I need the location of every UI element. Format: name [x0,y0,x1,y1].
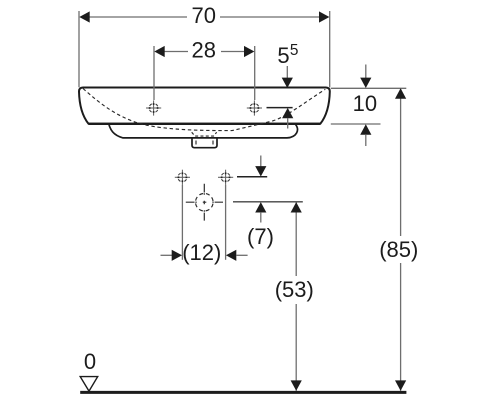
dim 28: arrow right [244,46,254,57]
dim 10: up arrow [360,124,371,134]
dim 28: arrow left [154,46,164,57]
dim 7: up arrow [255,202,266,212]
dim 70: line [88,16,320,18]
svg-text:5: 5 [277,43,289,68]
dim 70: extension line right [329,11,331,87]
dim 70: extension line left [78,11,80,87]
dim 5.5: upper arrow stem [286,66,288,79]
dim 12: extension line right [225,185,227,260]
dim 10: lower arrow stem [365,134,367,146]
svg-text:10: 10 [353,91,377,116]
svg-text:5: 5 [290,42,299,59]
basin rim bottom edge [89,123,321,125]
dim 53: vertical line upper part [295,202,297,276]
mounting holes reference line [237,176,267,178]
dim 12: right stub line [236,254,248,256]
dim 53: down arrow [291,380,302,390]
dim 12: extension line left [181,185,183,260]
sump dashed outline [192,132,217,136]
svg-text:0: 0 [84,349,96,374]
basin interior dashed curve [83,89,325,131]
dim 53: up arrow [291,202,302,212]
dim 5.5: lower arrow stem [287,118,289,129]
dim 70: arrow right [319,11,329,22]
dim 28: line [163,51,246,53]
tap hole crosshair right [247,100,262,115]
dim 5.5: down arrow [282,78,293,88]
svg-text:(53): (53) [275,277,314,302]
dim 5.5: reference line at tap level [267,107,293,109]
basin apron [109,124,297,137]
dim 70: arrow left [79,11,89,22]
dim 10: upper extension line [331,87,407,89]
dim 28: extension line left [153,46,155,100]
dim 85: vertical line upper part [400,89,402,236]
svg-text:(12): (12) [182,240,221,265]
mounting hole crosshair right [218,170,233,185]
basin outline [79,88,330,124]
drain level reference line [233,201,303,203]
drain outlet dashed sides [196,141,213,145]
dim 53: vertical line lower part [295,304,297,391]
dim 7: upper arrow stem [260,156,262,168]
svg-text:28: 28 [192,38,216,63]
dim 10: lower extension line [331,123,381,125]
svg-text:(7): (7) [247,224,274,249]
svg-text:(85): (85) [379,237,418,262]
dim 5.5: up arrow [282,108,293,118]
drain symbol crosshair [186,184,223,221]
ground line [80,391,406,394]
dim 7: lower arrow stem [260,212,262,222]
svg-text:70: 70 [191,3,215,28]
tap hole crosshair left [146,100,161,115]
dim 85: up arrow [395,88,406,98]
datum triangle [80,377,98,392]
mounting hole crosshair left [175,170,190,185]
dim 12: left arrow (points right) [172,250,182,261]
dim 28: extension line right [254,46,256,100]
dim 12: right arrow (points left) [226,250,236,261]
dim 10: down arrow [360,78,371,88]
drain outlet rectangle [192,138,217,148]
dim 7: down arrow [255,166,266,176]
dim 12: left stub line [161,254,173,256]
dim 10: upper arrow stem [365,65,367,79]
dim 85: down arrow [395,380,406,390]
dim 85: vertical line lower part [400,263,402,391]
